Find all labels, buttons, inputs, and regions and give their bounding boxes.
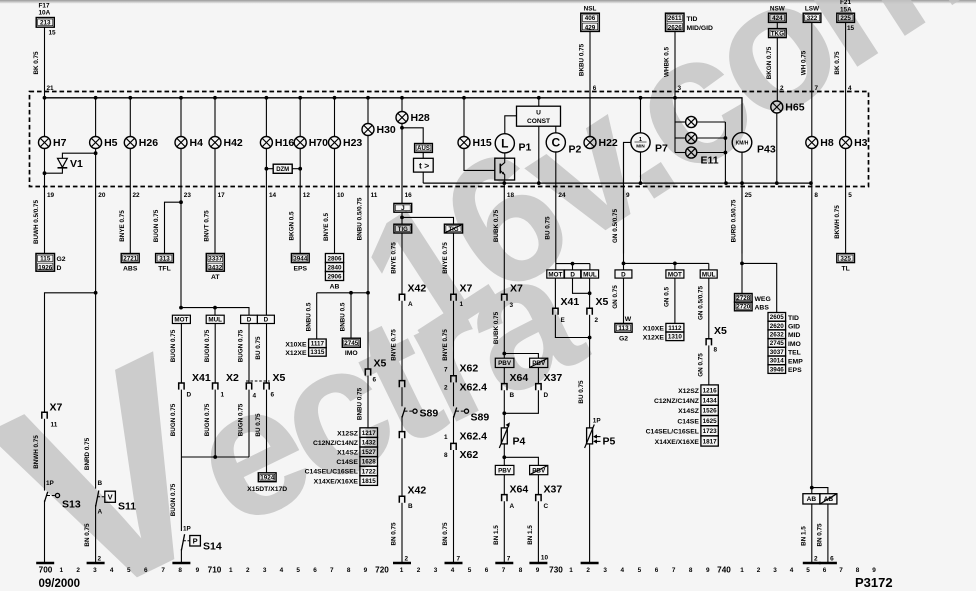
box MUL (gauge feed) [581,270,598,278]
connector X5 pin 6 on BNBU wire [365,369,370,376]
svg-text:14: 14 [269,192,277,199]
svg-text:4: 4 [110,567,114,574]
wire pin 11 third branch to X5/6 and engine stack [367,293,369,369]
svg-text:1: 1 [229,567,233,574]
connector X7 pin 3 [502,294,507,301]
svg-text:BUGN 0.75: BUGN 0.75 [238,403,245,436]
lamp H8 [806,137,834,150]
svg-text:740: 740 [717,566,731,575]
split of pin 11 wire [317,292,368,294]
connector X7 pin 11 on S13 leg [42,412,47,419]
illumination supply bus (node 21) [45,98,743,133]
wire to switch S89 (left) [401,387,403,406]
svg-text:2745: 2745 [770,340,785,347]
wire P43 bottom to pin 25 [741,152,743,253]
svg-text:X14XE/X16XE: X14XE/X16XE [314,478,359,485]
svg-text:TKG: TKG [771,30,784,37]
svg-text:4: 4 [848,85,852,92]
svg-text:U: U [536,109,541,116]
connector X62.4 pin 1 / X62 pin 8 [451,443,456,450]
connector X5 pin 6 (engine) [264,383,269,390]
connector box 113 with G2 label [615,323,632,332]
svg-text:J: J [401,205,405,212]
box MUL [206,315,224,323]
wire AUS to t> box [422,152,424,158]
svg-text:3: 3 [434,567,438,574]
svg-text:1315: 1315 [310,349,325,356]
svg-text:P3172: P3172 [855,575,893,590]
connector X7 pin 1 [451,294,456,301]
svg-text:X5: X5 [714,325,727,337]
wire U CONST to P1 [505,116,517,134]
svg-text:3037: 3037 [770,349,785,356]
svg-text:1527: 1527 [362,449,377,456]
wire from bus to lamp H15 [463,98,465,137]
wire from bus to lamp H16 [265,98,267,137]
svg-text:4: 4 [451,567,455,574]
feed line to MOT/MUL/D boxes [181,308,249,316]
svg-text:X14XE/X16XE: X14XE/X16XE [655,439,700,446]
svg-text:X15DT/X17D: X15DT/X17D [247,486,287,493]
tachometer P7 (1/MIN) [631,133,668,155]
svg-text:H7: H7 [53,137,67,149]
ground bar (720-7) for X64 [495,562,513,565]
svg-text:3: 3 [510,302,514,309]
svg-text:BNBU 0.5: BNBU 0.5 [305,302,312,331]
svg-text:E: E [561,317,566,324]
svg-text:AUS: AUS [417,146,430,152]
connector boxes 1112 / 1310 with X10XE, X12XE labels [666,323,684,332]
wire X5/8 to engine stack, label GN 0.75 [708,345,710,385]
svg-text:P2: P2 [569,144,582,156]
svg-text:AB: AB [330,283,340,290]
svg-text:IMO: IMO [788,341,801,348]
wire from bus to lamp H30 [367,98,369,124]
svg-text:2: 2 [586,567,590,574]
branch to display stack [742,263,777,312]
connector X41 pin E [553,308,558,315]
svg-text:1723: 1723 [703,428,718,435]
svg-text:429: 429 [585,24,596,31]
ground bar (720-4) for X62 [445,562,463,565]
svg-text:BUGN 0.75: BUGN 0.75 [170,329,177,362]
svg-text:S89: S89 [471,411,490,423]
svg-text:8: 8 [444,452,448,459]
svg-text:P7: P7 [655,143,668,155]
svg-text:BNYE 0.75: BNYE 0.75 [391,329,398,361]
switch S89 (right) [454,408,469,418]
svg-text:PBV: PBV [532,467,546,474]
wire diode V1 cathode to H7 wire [45,168,63,173]
wire MOT bottom to X41/E [554,278,556,308]
svg-text:NSW: NSW [770,6,786,13]
wire below H70 to pin 12 [299,149,301,254]
svg-text:AT: AT [211,274,220,281]
svg-text:10A: 10A [39,10,51,17]
connector X42 pin A [399,294,404,301]
dashed tie + X5 label over pins 4/6 [246,380,270,382]
wire AB to ground bar, label BN 1.5 [811,504,813,563]
lamp E11a [686,116,697,127]
svg-text:1216: 1216 [703,387,718,394]
wire from bus to lamp H7 [44,98,46,137]
branch from H28 wire to AUS box [402,128,423,144]
wire pin 23 down, label BUGN 0.75 branch to TFL [180,149,182,308]
gauge P2 (coolant temp, C) [546,133,581,156]
gauge P1 (fuel, L) [495,134,531,154]
wire S89 to inline connector (left) [401,416,403,431]
wire P1 to transistor box [504,153,506,158]
svg-text:4: 4 [253,392,257,399]
svg-text:7: 7 [815,85,819,92]
svg-text:BN 1.5: BN 1.5 [493,525,500,545]
connector stack 2806/2840/2906 with AB label [325,254,343,263]
svg-text:H70: H70 [309,137,328,149]
svg-text:113: 113 [618,325,629,332]
svg-text:BN 0.75: BN 0.75 [816,523,823,547]
connector X64 pin B [502,384,507,391]
box MOT (pin 9) [666,270,684,278]
svg-text:18: 18 [507,192,515,199]
box AB [803,494,820,504]
wire MOT to 1112/1310, label GN 0.5 [674,278,676,323]
wire U CONST to P2 [555,126,557,133]
wire BK 0.75 from F17 to node 21 [44,27,46,98]
connector boxes 2611 / 2626 with TID, MID/GID labels [666,13,685,31]
svg-text:MOT: MOT [668,271,682,278]
svg-text:L: L [501,137,508,151]
comparator box t > [414,158,434,172]
box TIG (crossed out) [444,224,462,233]
svg-text:ABS: ABS [123,265,138,272]
svg-text:C14SEL/C16SEL: C14SEL/C16SEL [646,429,699,436]
wire X5/6 to 1924 connector, label BU 0.75 [266,390,268,473]
svg-text:1434: 1434 [703,397,718,404]
wire WHBK 0.5 from TID/MID connector to illumination bus, pin 3 [674,31,676,98]
lamp H7 [39,137,67,150]
svg-text:6: 6 [823,567,827,574]
wire X62 to ground bar, label BN 0.75 [453,450,455,563]
svg-text:W: W [625,316,632,323]
svg-text:X64: X64 [510,483,529,495]
ground bar (730-2) for P5 [581,562,599,565]
wire X42/B to ground bar, label BN 0.75 [401,503,403,563]
svg-text:X12SZ: X12SZ [337,430,358,437]
svg-text:1815: 1815 [362,478,377,485]
svg-text:6: 6 [313,567,317,574]
lamp H5 [90,137,118,150]
ground bar (740-5) [803,562,821,565]
wire branch pin 20 to S13 leg [45,293,96,412]
cluster internal ground bus [423,182,811,184]
svg-text:F21: F21 [840,0,851,6]
svg-text:MID: MID [788,332,801,339]
wire pin 10 down, label BNYE 0.5 [334,149,336,254]
svg-text:710: 710 [208,566,222,575]
wire J to TIG box with branch to crossed TIG [401,212,403,224]
connector X5 pin 2 [587,308,592,315]
ground bar (720-1) for X42 [393,562,411,565]
wire pin 11 down, label BNBU 0.5/0.75 [367,136,369,293]
box MOT (gauge feed) [547,270,564,278]
svg-text:H4: H4 [190,137,204,149]
svg-text:LSW: LSW [805,6,820,13]
svg-text:10: 10 [337,192,345,199]
wire X42/A down, label BNYE 0.75 [401,301,403,381]
svg-text:BNVT 0.75: BNVT 0.75 [204,210,211,242]
wire BKBU 0.75 from NSL to H22, pin 6 [589,31,591,136]
connector box 325 with TL label [837,254,855,263]
svg-text:X14SZ: X14SZ [337,450,358,457]
svg-text:3337: 3337 [208,255,223,262]
svg-text:EMP: EMP [788,358,803,365]
svg-text:D: D [570,271,575,278]
svg-text:TIG: TIG [398,227,408,233]
svg-text:BUBK 0.75: BUBK 0.75 [493,209,500,242]
svg-text:1432: 1432 [362,439,377,446]
svg-text:3: 3 [603,567,607,574]
connector boxes 1117 / 1315 with X10XE, X12XE labels [309,339,327,348]
svg-text:2: 2 [246,567,250,574]
svg-text:20: 20 [98,192,106,199]
wire D to 113/G2, label GN 0.75 [623,278,625,323]
svg-text:BUGN 0.75: BUGN 0.75 [238,329,245,362]
wire H65 to internal ground bus [776,113,778,183]
svg-text:X7: X7 [510,282,523,294]
svg-text:BUGN 0.75: BUGN 0.75 [153,209,160,242]
connector box 322 (LSW) [803,13,821,22]
svg-text:9: 9 [536,567,540,574]
svg-text:G2: G2 [619,335,628,342]
connector box 2720 with ABS label [735,302,753,311]
svg-text:H3: H3 [854,137,868,149]
svg-text:D: D [264,317,269,324]
wire P2 to pin 24 [555,152,557,264]
wire branch H5 to diode V1 [62,153,95,158]
inline connector below S89 (left) [399,432,404,439]
svg-text:X5: X5 [374,358,387,370]
svg-text:S14: S14 [203,541,222,553]
svg-text:3014: 3014 [770,358,785,365]
wire crossed AB to ground bar, label BN 0.75 [827,504,829,563]
wire to X64/A [503,475,505,495]
svg-text:TID: TID [687,16,698,23]
svg-text:C14SEL/C16SEL: C14SEL/C16SEL [305,469,358,476]
svg-text:BN 1.5: BN 1.5 [800,526,807,546]
wire P7 bottom to internal ground bus [640,152,642,183]
svg-text:8: 8 [347,567,351,574]
svg-text:X37: X37 [544,372,563,384]
svg-text:9: 9 [872,567,876,574]
connector X5 pin 4 [246,383,251,390]
svg-text:2806: 2806 [327,255,342,262]
svg-text:P43: P43 [757,143,776,155]
svg-text:BUBK 0.75: BUBK 0.75 [493,311,500,344]
svg-text:P5: P5 [603,436,616,448]
svg-text:BUGN 0.75: BUGN 0.75 [204,403,211,436]
svg-text:5: 5 [806,567,810,574]
svg-text:406: 406 [585,15,596,22]
wire pin 8 split to AB boxes [810,486,814,490]
svg-text:TFL: TFL [158,265,170,272]
connector box 313 with TFL label [156,254,174,263]
ground bar (700-3) for S11 [87,562,105,565]
svg-text:BNYE 0.75: BNYE 0.75 [442,242,449,274]
svg-text:322: 322 [807,15,818,22]
svg-text:X62: X62 [460,362,479,374]
svg-text:S11: S11 [118,501,136,513]
svg-text:BN 0.75: BN 0.75 [84,523,91,547]
connector boxes 406 / 429 (NSL) [581,13,600,31]
ground bar (720-9) for X37 [529,562,547,565]
svg-text:4: 4 [621,567,625,574]
ground bar (700) for S13 [36,562,54,565]
svg-text:MOT: MOT [548,271,562,278]
svg-text:H65: H65 [785,102,804,114]
svg-text:7: 7 [161,567,165,574]
svg-text:MID/GID: MID/GID [687,25,714,32]
svg-text:1: 1 [639,137,642,143]
svg-text:2728: 2728 [736,295,751,302]
svg-text:H26: H26 [139,137,158,149]
svg-text:PBV: PBV [498,467,512,474]
svg-text:1: 1 [60,567,64,574]
inline connector above S89 (left) [399,381,404,388]
svg-text:6: 6 [830,556,834,563]
svg-text:H23: H23 [343,137,362,149]
svg-text:BU 0.75: BU 0.75 [255,336,262,360]
svg-text:115: 115 [40,255,51,262]
svg-text:X41: X41 [561,296,580,308]
svg-text:3946: 3946 [770,366,785,373]
connector boxes 115 / 1926 with G2, D labels [36,254,55,272]
svg-text:6: 6 [373,377,377,384]
svg-text:X41: X41 [192,372,211,384]
svg-text:DZM: DZM [276,167,289,173]
svg-text:213: 213 [40,20,51,27]
svg-text:H15: H15 [473,137,492,149]
connector box 225 (fuse F21) [837,13,855,22]
svg-text:BKGN 0.75: BKGN 0.75 [766,46,773,79]
svg-text:P4: P4 [513,436,526,448]
svg-text:1: 1 [400,567,404,574]
wire MUL down to X5/8, label GN 0.5/0.75 [708,278,710,339]
lamp H30 [362,124,396,137]
engine-variant stack 1217..1815 [360,428,378,438]
connector box 1924 with X15DT/X17D label [258,473,276,482]
svg-text:1526: 1526 [703,408,718,415]
svg-text:C14SE: C14SE [336,459,358,466]
box TIG [394,224,412,233]
svg-text:8: 8 [178,567,182,574]
svg-text:V1: V1 [70,158,83,170]
svg-text:7: 7 [457,556,461,563]
wire P5 to ground bar (730-2) [589,444,591,563]
svg-text:H28: H28 [411,112,430,124]
svg-text:3: 3 [263,567,267,574]
svg-text:X64: X64 [510,372,529,384]
wire from bus to lamp H23 [334,98,336,137]
wire transistor box to pin 18 and X7/3 [503,180,505,294]
box D (pin 9) [615,270,632,278]
connector box 2745 with IMO label [342,338,360,347]
svg-text:5: 5 [296,567,300,574]
svg-text:7: 7 [444,366,448,373]
svg-text:9: 9 [196,567,200,574]
lamp E11b [686,132,697,143]
svg-text:5: 5 [638,567,642,574]
svg-text:BNBU 0.5/0.75: BNBU 0.5/0.75 [356,197,363,240]
svg-text:25: 25 [745,192,753,199]
wire H8 bottom to pin 8 (long run) [811,149,813,488]
svg-text:X37: X37 [544,483,563,495]
wire TID/MID feed down to E11 left rail [674,98,676,153]
svg-text:1625: 1625 [703,418,718,425]
fuel sender P4 (variable resistor) [499,422,525,448]
relay box TKG [769,29,787,38]
svg-text:19: 19 [47,192,55,199]
split to MOT/D/MUL boxes [556,263,590,265]
svg-text:X10XE: X10XE [285,341,307,348]
svg-text:6: 6 [271,391,275,398]
svg-text:H16: H16 [275,137,294,149]
svg-text:MIN: MIN [636,144,645,149]
svg-text:BUGN 0.75: BUGN 0.75 [204,329,211,362]
svg-text:MOT: MOT [174,317,188,324]
svg-text:BURD 0.5/0.75: BURD 0.5/0.75 [730,199,737,242]
wire down to X42/B [401,438,403,496]
wire from bus to lamp H26 [129,98,131,137]
svg-text:BK 0.75: BK 0.75 [834,51,841,75]
svg-text:4: 4 [280,567,284,574]
svg-text:C: C [551,136,560,150]
svg-text:2: 2 [814,556,818,563]
display stack 2605..3946 with TID..EPS labels [768,313,786,322]
svg-text:9: 9 [706,567,710,574]
svg-text:KM/H: KM/H [736,141,749,147]
svg-text:730: 730 [549,566,563,575]
box J on pin 16 wire [394,203,412,212]
svg-text:2720: 2720 [736,304,751,311]
E11 right collector rail to ground bus [697,121,726,123]
svg-text:2: 2 [98,556,102,563]
lamp H65 [771,101,805,114]
svg-text:X7: X7 [50,402,63,414]
wires X41/E and X5/2 join [555,315,589,338]
svg-text:BNYE 0.75: BNYE 0.75 [391,242,398,274]
switch S89 (left) [402,408,417,418]
wire D to X5/4, label BUGN 0.75 [248,324,250,383]
svg-text:1117: 1117 [311,341,325,348]
svg-text:1112: 1112 [668,325,682,332]
svg-text:2721: 2721 [123,255,138,262]
svg-text:BKBU 0.75: BKBU 0.75 [579,43,586,76]
wire t> to internal ground bus [422,172,424,183]
svg-text:2906: 2906 [327,273,342,280]
connector box 2728 with WEG label [735,294,753,303]
svg-text:BNWH 0.75: BNWH 0.75 [33,435,40,469]
svg-text:TL: TL [841,265,849,272]
svg-text:B: B [408,503,413,510]
svg-text:BU 0.75: BU 0.75 [578,380,585,404]
wire below H7 to pin 19 [44,149,46,254]
connector X5 pin 8 [706,339,711,346]
wire X7/11 to switch S13 [44,419,46,491]
svg-text:C12NZ/C14NZ: C12NZ/C14NZ [654,398,699,405]
wire to switch S89 (right) [453,382,455,406]
connector X41 pin D [179,383,184,390]
engine-variant stack 1216..1817 [701,385,718,395]
